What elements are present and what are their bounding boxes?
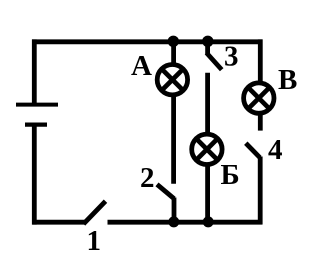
svg-text:3: 3 [224, 41, 239, 73]
svg-text:2: 2 [140, 162, 155, 194]
wire: switch 3 fixed contact down to lamp Б [205, 73, 210, 136]
lamp Б (bulb: circle with X) [192, 134, 222, 164]
wire: bottom rail left segment (bottom-left corner to switch 1 pivot) [32, 220, 84, 225]
svg-text:А: А [131, 50, 152, 82]
svg-text:4: 4 [268, 134, 283, 166]
wire: from top node down to lamp A [171, 42, 176, 66]
wire: lamp Б bottom lead down to bottom node [205, 163, 210, 222]
svg-text:1: 1 [87, 225, 102, 257]
node: top junction of lamp A branch [168, 36, 179, 47]
switch 3 pivot stub from top node [205, 42, 210, 54]
battery cell: short (negative) plate [25, 122, 47, 126]
node: bottom junction of lamp A branch [168, 216, 179, 227]
lamp B (bulb: circle with X) [244, 83, 274, 113]
switch 3 open arm (blade swung down-right) [207, 53, 222, 70]
lamp A (bulb: circle with X) [157, 65, 187, 95]
wire: lamp A bottom lead down to switch 2 fixed contact [171, 94, 176, 184]
svg-text:Б: Б [221, 159, 240, 191]
switch 1 open arm (pivot at left contact, blade raised to the right) [84, 201, 106, 224]
wire: top rail from top-left corner to top-right corner [32, 39, 263, 44]
wire: right rail upper (top-right corner down to lamp B) [258, 39, 263, 84]
switch 4 open arm (blade tilted up-left from lower pivot) [246, 143, 260, 157]
switch 2 open arm (blade tilted up-left from lower pivot) [157, 184, 174, 198]
node: top junction of switch 3 branch [202, 36, 213, 47]
wire: bottom rail right segment (switch 1 fixed contact to bottom-right corner) [108, 220, 263, 225]
battery cell: long (positive) plate [16, 103, 58, 107]
wire: left rail upper (top-left corner down to battery positive plate) [32, 39, 37, 103]
wire: left rail lower (battery negative plate down to bottom-left corner) [32, 125, 37, 225]
wire: right rail lower (switch 4 pivot down to bottom-right corner) [258, 157, 263, 225]
wire: switch 2 pivot stub down to bottom node [172, 198, 177, 223]
svg-text:В: В [278, 64, 297, 96]
node: bottom junction of lamp Б branch [203, 216, 214, 227]
wire: lamp B bottom lead down to switch 4 fixed contact [258, 113, 263, 131]
